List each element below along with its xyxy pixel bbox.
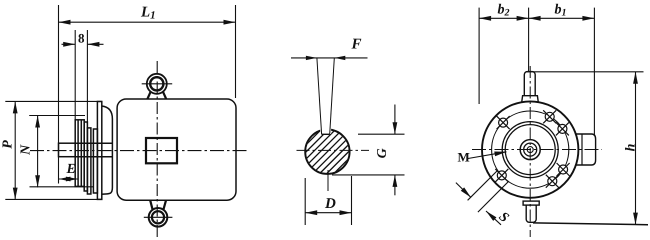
svg-text:N: N <box>19 144 34 156</box>
svg-text:D: D <box>324 196 336 212</box>
svg-text:h: h <box>624 143 639 151</box>
svg-text:E: E <box>65 162 75 177</box>
svg-text:G: G <box>375 148 390 158</box>
svg-text:8: 8 <box>78 30 85 45</box>
svg-text:M: M <box>457 149 469 164</box>
svg-text:F: F <box>350 36 361 52</box>
svg-text:P: P <box>1 140 16 149</box>
